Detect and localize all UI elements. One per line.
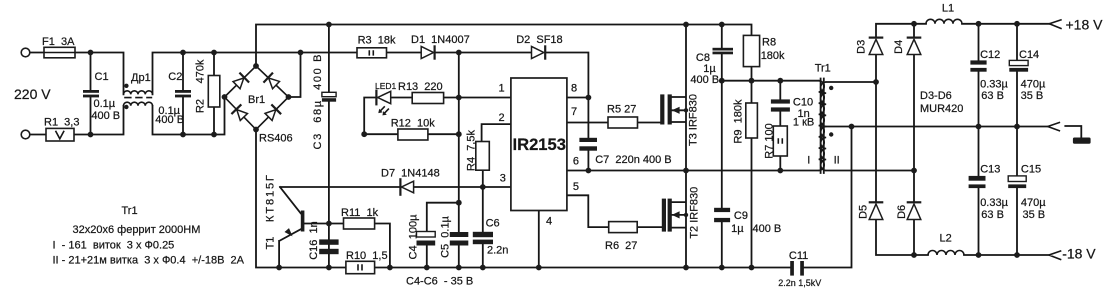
svg-text:3: 3 <box>500 173 506 185</box>
svg-text:R6 27: R6 27 <box>605 240 637 252</box>
svg-text:D7 1N4148: D7 1N4148 <box>381 167 440 179</box>
svg-text:D5: D5 <box>858 205 870 219</box>
svg-text:35 В: 35 В <box>1021 90 1044 102</box>
svg-text:5: 5 <box>573 181 579 193</box>
svg-text:C6: C6 <box>486 217 500 229</box>
svg-text:C16 1n: C16 1n <box>308 221 320 260</box>
svg-text:2.2n: 2.2n <box>487 245 508 257</box>
svg-text:0.33µ: 0.33µ <box>980 197 1008 209</box>
svg-text:T1: T1 <box>265 237 277 250</box>
svg-text:1µ: 1µ <box>731 223 744 235</box>
svg-text:II - 21+21м витка 3 х Ф0.4 +: II - 21+21м витка 3 х Ф0.4 +/-18В 2А <box>53 255 245 267</box>
svg-text:I: I <box>807 155 810 167</box>
svg-text:C9: C9 <box>734 210 748 222</box>
svg-text:180k: 180k <box>761 50 785 62</box>
svg-text:R11 1k: R11 1k <box>341 207 379 219</box>
svg-text:400 В: 400 В <box>155 114 184 126</box>
svg-text:D2 SF18: D2 SF18 <box>516 34 562 46</box>
svg-text:R10 1,5: R10 1,5 <box>346 250 388 262</box>
svg-text:R4 7,5k: R4 7,5k <box>466 130 478 171</box>
svg-text:R7 100: R7 100 <box>764 123 776 158</box>
svg-text:Tr1: Tr1 <box>122 205 138 217</box>
svg-text:400 В: 400 В <box>753 223 782 235</box>
svg-text:MUR420: MUR420 <box>920 103 963 115</box>
svg-text:220 V: 220 V <box>14 86 51 102</box>
svg-text:2.2n 1,5kV: 2.2n 1,5kV <box>778 278 821 288</box>
svg-text:2: 2 <box>498 112 504 124</box>
svg-text:C5 0.1µ: C5 0.1µ <box>440 215 452 257</box>
svg-text:32x20x6 феррит 2000НМ: 32x20x6 феррит 2000НМ <box>73 224 201 236</box>
svg-text:400 В: 400 В <box>690 74 719 86</box>
svg-text:0.1µ: 0.1µ <box>94 98 116 110</box>
svg-text:8: 8 <box>571 83 577 95</box>
svg-text:470µ: 470µ <box>1021 197 1046 209</box>
svg-text:R2: R2 <box>195 99 207 113</box>
svg-text:LED1: LED1 <box>375 81 397 91</box>
svg-text:1: 1 <box>498 83 504 95</box>
svg-text:R5 27: R5 27 <box>607 104 636 116</box>
svg-text:R8: R8 <box>762 36 776 48</box>
svg-text:35 В: 35 В <box>1023 209 1046 221</box>
svg-text:D3-D6: D3-D6 <box>920 90 952 102</box>
svg-text:IR2153: IR2153 <box>513 136 567 154</box>
svg-text:Др1: Др1 <box>131 72 151 84</box>
svg-text:63 В: 63 В <box>981 209 1004 221</box>
svg-text:II: II <box>834 155 840 167</box>
svg-text:C4-C6 - 35 В: C4-C6 - 35 В <box>406 276 473 288</box>
svg-text:400 В: 400 В <box>91 110 120 122</box>
svg-text:63 В: 63 В <box>981 90 1004 102</box>
svg-text:470k: 470k <box>195 59 207 83</box>
svg-text:Br1: Br1 <box>248 94 265 106</box>
svg-text:Tr1: Tr1 <box>815 62 831 74</box>
svg-text:D4: D4 <box>893 40 905 54</box>
svg-text:R13 220: R13 220 <box>398 81 443 93</box>
svg-text:-18 V: -18 V <box>1062 246 1096 262</box>
svg-text:L1: L1 <box>942 3 954 15</box>
svg-text:F1 3A: F1 3A <box>42 36 75 48</box>
svg-text:C2: C2 <box>168 71 182 83</box>
svg-text:6: 6 <box>573 155 579 167</box>
svg-text:D3: D3 <box>856 40 868 54</box>
svg-text:+18 V: +18 V <box>1066 17 1104 33</box>
svg-text:D6: D6 <box>896 205 908 219</box>
svg-text:0.33µ: 0.33µ <box>980 79 1008 91</box>
svg-text:R1 3,3: R1 3,3 <box>44 117 79 129</box>
svg-text:I - 161 виток 3 х Ф0.25: I - 161 виток 3 х Ф0.25 <box>53 240 175 252</box>
svg-text:C4 100µ: C4 100µ <box>408 214 420 260</box>
svg-text:T3 IRF830: T3 IRF830 <box>687 94 699 146</box>
svg-text:C15: C15 <box>1021 164 1041 176</box>
svg-text:C7 220n 400 В: C7 220n 400 В <box>595 154 671 166</box>
svg-text:C14: C14 <box>1019 49 1039 61</box>
svg-text:R3 18k: R3 18k <box>358 34 396 46</box>
svg-text:C3 68µ 400 В: C3 68µ 400 В <box>312 55 324 150</box>
svg-text:470µ: 470µ <box>1021 79 1046 91</box>
svg-text:C12: C12 <box>980 49 1000 61</box>
svg-text:7: 7 <box>571 106 577 118</box>
svg-text:1 кВ: 1 кВ <box>793 117 814 129</box>
svg-text:C11: C11 <box>789 250 808 262</box>
svg-text:4: 4 <box>546 216 552 228</box>
svg-text:T2 IRF830: T2 IRF830 <box>688 187 700 239</box>
svg-text:C10: C10 <box>793 97 813 109</box>
svg-text:L2: L2 <box>940 232 952 244</box>
svg-text:C13: C13 <box>980 164 1000 176</box>
svg-text:RS406: RS406 <box>259 133 293 145</box>
svg-text:D1 1N4007: D1 1N4007 <box>411 34 470 46</box>
svg-text:R12 10k: R12 10k <box>391 117 436 129</box>
svg-text:C1: C1 <box>95 71 109 83</box>
svg-text:R9 180k: R9 180k <box>733 99 745 144</box>
